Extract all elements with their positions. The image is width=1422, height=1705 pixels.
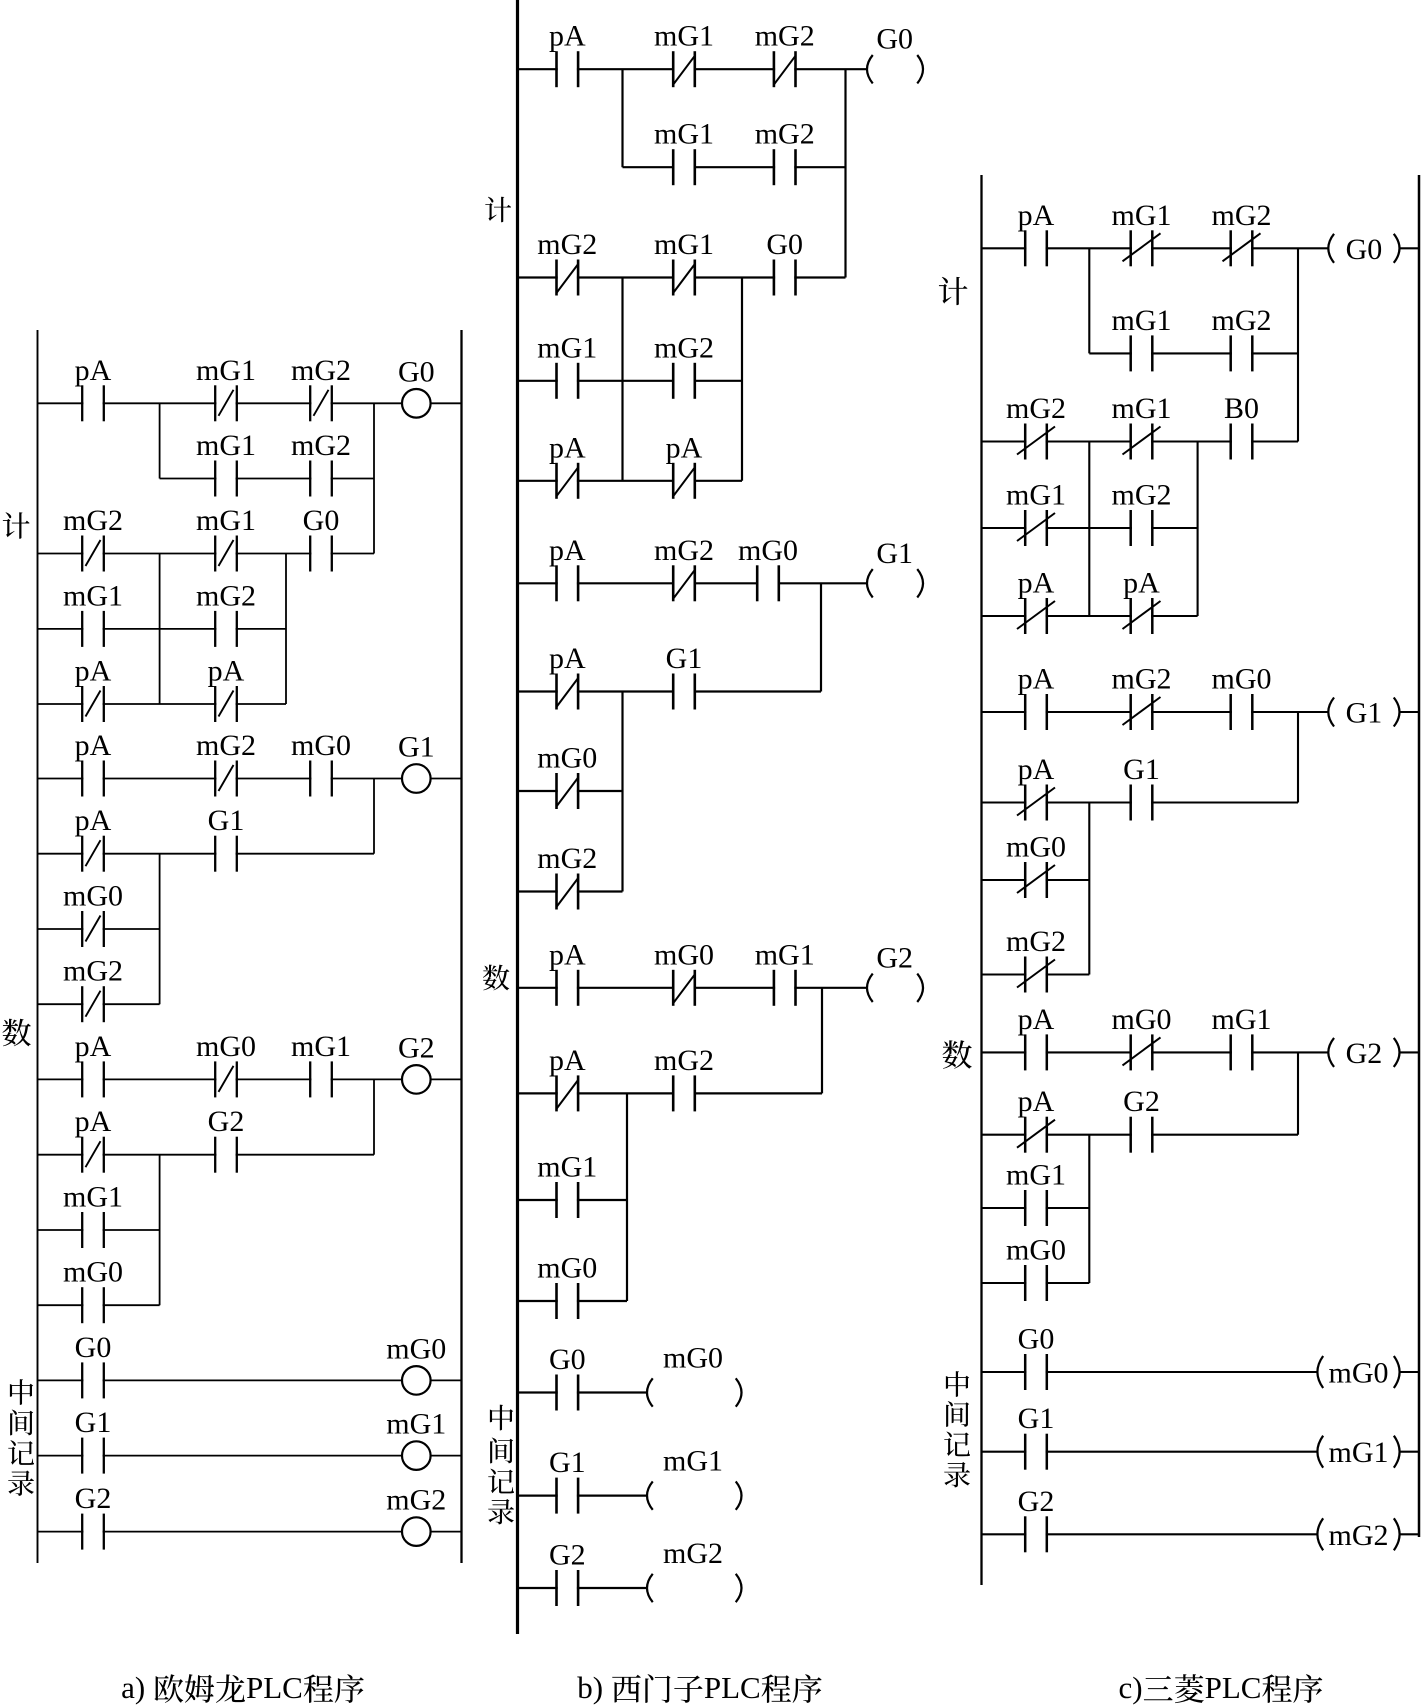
coil G1 (b) xyxy=(867,537,923,598)
left power rail (a) xyxy=(37,330,39,1563)
wire branch row pA-G1 (b) xyxy=(518,690,822,692)
contact mG1 branch (a) xyxy=(196,429,256,497)
contact mG2 NC row (b) xyxy=(537,842,597,910)
wire vertical junction rung1-rung2 (c) xyxy=(1297,248,1299,441)
label zhongjianjilu (intermediate record) diagram c xyxy=(944,1371,970,1487)
label shu (number) diagram a xyxy=(2,1019,30,1047)
contact mG0 row (a) xyxy=(63,1256,123,1324)
wire branch row mG0 (c) xyxy=(982,879,1090,881)
wire parallel branch mG1-mG2 (c) xyxy=(1089,352,1298,354)
svg-text:mG1: mG1 xyxy=(1006,479,1066,512)
wire branch row mG0 (b) xyxy=(518,1300,628,1302)
contact pA NC row4 col1 (a) xyxy=(75,655,112,723)
coil G2 (c) xyxy=(1328,1037,1399,1070)
svg-text:G1: G1 xyxy=(75,1406,112,1439)
contact mG2 NC rung3 (b) xyxy=(654,534,714,602)
contact mG0 NC row (a) xyxy=(63,880,123,948)
svg-text:pA: pA xyxy=(75,729,112,762)
contact mG2 NC rung2 (a) xyxy=(63,504,123,572)
svg-text:pA: pA xyxy=(75,1105,112,1138)
svg-text:pA: pA xyxy=(75,655,112,688)
wire coil G1 to rail (c) xyxy=(1400,711,1420,713)
contact G2 rung7 (b) xyxy=(549,1539,586,1607)
coil mG1 (a) xyxy=(386,1408,446,1470)
contact mG0 NC rung4 (a) xyxy=(196,1030,256,1098)
contact mG1 rung4 (b) xyxy=(755,938,815,1006)
contact pA NC row pA-G1 (c) xyxy=(1017,753,1055,821)
contact mG1 branch (b) xyxy=(654,118,714,186)
svg-text:mG0: mG0 xyxy=(291,729,351,762)
svg-text:mG2: mG2 xyxy=(755,118,815,151)
svg-text:pA: pA xyxy=(1018,663,1055,696)
wire vertical junction rung1-branch (b) xyxy=(621,69,623,167)
svg-text:mG1: mG1 xyxy=(663,1445,723,1478)
wire vertical junction rung4 (a) xyxy=(373,1079,375,1154)
wire vertical rung4 block (c) xyxy=(1088,1135,1090,1283)
svg-text:B0: B0 xyxy=(1224,392,1259,425)
svg-text:mG2: mG2 xyxy=(1112,479,1172,512)
contact G2 row pA-G2 (a) xyxy=(208,1105,245,1173)
svg-text:mG1: mG1 xyxy=(654,20,714,53)
contact pA rung4 (a) xyxy=(75,1030,112,1098)
contact pA rung3 (c) xyxy=(1018,663,1055,731)
svg-text:G0: G0 xyxy=(766,228,803,261)
svg-text:pA: pA xyxy=(549,20,586,53)
svg-text:G0: G0 xyxy=(1018,1323,1055,1356)
right power rail (a) xyxy=(460,330,462,1563)
contact mG2 NC rung2 (b) xyxy=(537,228,597,296)
svg-text:mG0: mG0 xyxy=(386,1332,446,1365)
svg-text:pA: pA xyxy=(1018,1003,1055,1036)
svg-text:PLC: PLC xyxy=(246,1670,303,1705)
coil G0 (c) xyxy=(1328,233,1399,266)
svg-text:pA: pA xyxy=(549,1044,586,1077)
wire rung6 G1 (b) xyxy=(518,1494,648,1496)
contact pA NC row4 col2 (a) xyxy=(208,655,245,723)
wire branch row mG1-mG2 (a) xyxy=(38,628,287,630)
svg-text:mG0: mG0 xyxy=(1112,1003,1172,1036)
wire vertical right side rung2 block (b) xyxy=(741,278,743,481)
svg-text:pA: pA xyxy=(1018,567,1055,600)
wire rung3 (a) xyxy=(38,778,417,780)
wire coil mG0 to rail (c) xyxy=(1400,1371,1419,1373)
wire vertical rung3 block (c) xyxy=(1088,803,1090,975)
svg-text:mG2: mG2 xyxy=(63,504,123,537)
contact mG2 NC rung3 (c) xyxy=(1112,663,1172,731)
wire rung4 (a) xyxy=(38,1078,417,1080)
svg-text:pA: pA xyxy=(666,431,703,464)
contact mG0 NC row (b) xyxy=(537,742,597,810)
wire rung2 (b) xyxy=(518,276,846,278)
label shu (number) diagram c xyxy=(943,1040,972,1069)
svg-text:mG0: mG0 xyxy=(537,742,597,775)
wire branch row mG1-mG2 (b) xyxy=(518,380,743,382)
svg-text:pA: pA xyxy=(75,354,112,387)
svg-text:a): a) xyxy=(121,1670,145,1705)
svg-text:mG2: mG2 xyxy=(654,534,714,567)
svg-text:G2: G2 xyxy=(398,1031,435,1064)
wire rung6 G1 (c) xyxy=(982,1451,1318,1453)
caption c) Mitsubishi PLC program xyxy=(1119,1670,1323,1705)
contact mG1 NC rung1 (b) xyxy=(654,20,714,88)
svg-text:mG0: mG0 xyxy=(1006,1234,1066,1267)
svg-text:pA: pA xyxy=(549,938,586,971)
contact pA rung4 (b) xyxy=(549,938,586,1006)
svg-text:G0: G0 xyxy=(1346,233,1383,266)
contact mG2 row3 (c) xyxy=(1112,479,1172,547)
svg-text:mG0: mG0 xyxy=(1006,831,1066,864)
left power rail (c) xyxy=(980,175,982,1585)
svg-text:mG1: mG1 xyxy=(1112,392,1172,425)
wire rung5 G0 (a) xyxy=(38,1379,462,1381)
contact pA NC row4 col2 (b) xyxy=(666,431,703,499)
wire vertical right side rung2 block (a) xyxy=(285,554,287,705)
wire parallel branch mG1-mG2 (a) xyxy=(160,478,374,480)
wire coil mG1 to rail (c) xyxy=(1400,1451,1419,1453)
svg-text:PLC: PLC xyxy=(1205,1670,1262,1705)
wire rung7 G2 (b) xyxy=(518,1587,648,1589)
wire branch row mG1 (a) xyxy=(38,1229,160,1231)
wire coil G2 to rail (a) xyxy=(431,1078,462,1080)
contact mG2 NC row (c) xyxy=(1006,925,1066,993)
contact mG2 branch (b) xyxy=(755,118,815,186)
svg-text:PLC: PLC xyxy=(704,1670,761,1705)
svg-text:mG1: mG1 xyxy=(755,938,815,971)
svg-text:G2: G2 xyxy=(1018,1485,1055,1518)
svg-text:mG1: mG1 xyxy=(654,118,714,151)
contact G1 row pA-G1 (b) xyxy=(666,642,703,710)
contact G1 rung6 (b) xyxy=(549,1446,586,1514)
contact pA NC row pA-G1 (b) xyxy=(549,642,586,710)
wire branch row pA-G1 (c) xyxy=(982,801,1299,803)
contact mG0 NC rung4 (c) xyxy=(1112,1003,1172,1071)
wire vertical junction rung1-rung2 (b) xyxy=(844,69,846,277)
contact mG1 rung4 (c) xyxy=(1212,1003,1272,1071)
svg-text:mG0: mG0 xyxy=(63,1256,123,1289)
wire vertical junction rung3 (c) xyxy=(1297,712,1299,803)
contact mG0 row (b) xyxy=(537,1252,597,1320)
svg-text:mG1: mG1 xyxy=(537,331,597,364)
contact mG2 NC rung2 (c) xyxy=(1006,392,1066,460)
svg-text:mG2: mG2 xyxy=(291,354,351,387)
svg-text:mG2: mG2 xyxy=(1006,925,1066,958)
coil mG1 (c) xyxy=(1317,1436,1399,1470)
wire rung3 (b) xyxy=(518,582,868,584)
contact mG2 NC row (a) xyxy=(63,955,123,1023)
wire vertical junction rung1-branch (c) xyxy=(1088,248,1090,353)
contact pA NC row pA-G2 (c) xyxy=(1017,1085,1055,1153)
svg-text:b): b) xyxy=(577,1670,603,1705)
contact pA NC row4 col2 (c) xyxy=(1123,567,1161,635)
svg-text:G1: G1 xyxy=(549,1446,586,1479)
contact G1 row pA-G1 (a) xyxy=(208,804,245,872)
contact mG1 row3 (a) xyxy=(63,579,123,647)
svg-text:mG2: mG2 xyxy=(537,228,597,261)
contact G0 rung5 (a) xyxy=(75,1331,112,1399)
wire rung3 (c) xyxy=(982,711,1329,713)
wire vertical junction rung4 (b) xyxy=(821,988,823,1094)
svg-text:pA: pA xyxy=(549,431,586,464)
wire vertical col1-col2 rung2 block (c) xyxy=(1088,442,1090,617)
svg-text:mG2: mG2 xyxy=(196,579,256,612)
wire rung1 (a) xyxy=(38,402,417,404)
contact G2 rung7 (a) xyxy=(75,1482,112,1550)
coil G2 (b) xyxy=(867,941,923,1002)
wire coil G2 to rail (c) xyxy=(1400,1051,1420,1053)
label shu (number) diagram b xyxy=(483,965,509,991)
svg-text:mG1: mG1 xyxy=(1212,1003,1272,1036)
contact G2 row pA-G2 (c) xyxy=(1123,1085,1160,1153)
contact pA NC row4 col1 (c) xyxy=(1017,567,1055,635)
contact G0 rung2 (a) xyxy=(303,504,340,572)
svg-text:G1: G1 xyxy=(208,804,245,837)
contact G0 rung5 (b) xyxy=(549,1343,586,1411)
contact mG0 NC rung4 (b) xyxy=(654,938,714,1006)
caption a) Omron PLC program xyxy=(121,1670,364,1705)
svg-text:mG2: mG2 xyxy=(663,1537,723,1570)
coil mG2 (b) xyxy=(647,1537,742,1602)
contact mG2 NC rung1 (a) xyxy=(291,354,351,422)
wire vertical col1-col2 rung2 block (a) xyxy=(159,554,161,705)
contact mG1 NC rung1 (a) xyxy=(196,354,256,422)
wire branch row mG0 (a) xyxy=(38,928,160,930)
contact pA rung3 (a) xyxy=(75,729,112,797)
svg-text:pA: pA xyxy=(549,534,586,567)
wire rung7 G2 (a) xyxy=(38,1531,462,1533)
wire rung4 (c) xyxy=(982,1051,1329,1053)
svg-text:mG2: mG2 xyxy=(1212,199,1272,232)
svg-text:mG0: mG0 xyxy=(663,1342,723,1375)
svg-text:G1: G1 xyxy=(1018,1402,1055,1435)
wire branch row pA-G1 (a) xyxy=(38,853,375,855)
contact G0 rung2 (b) xyxy=(766,228,803,296)
caption b) Siemens PLC program xyxy=(577,1670,821,1705)
svg-text:G2: G2 xyxy=(876,941,913,974)
svg-text:mG0: mG0 xyxy=(537,1252,597,1285)
svg-text:mG0: mG0 xyxy=(1329,1357,1389,1390)
svg-text:G2: G2 xyxy=(75,1482,112,1515)
wire branch row mG0 (b) xyxy=(518,790,623,792)
wire branch row mG1 (b) xyxy=(518,1199,628,1201)
contact mG1 row3 (b) xyxy=(537,331,597,399)
wire vertical junction rung3 (b) xyxy=(820,583,822,691)
wire branch row pA-pA (a) xyxy=(38,703,287,705)
contact pA rung4 (c) xyxy=(1018,1003,1055,1071)
contact mG0 NC row (c) xyxy=(1006,831,1066,899)
coil mG0 (c) xyxy=(1317,1356,1399,1390)
wire rung5 G0 (b) xyxy=(518,1391,648,1393)
contact pA rung1 (b) xyxy=(549,20,586,88)
wire coil G0 to rail (c) xyxy=(1400,247,1420,249)
svg-text:mG2: mG2 xyxy=(63,955,123,988)
wire vertical rung4 block (b) xyxy=(626,1093,628,1301)
svg-text:mG2: mG2 xyxy=(1329,1519,1389,1552)
coil mG0 (a) xyxy=(386,1332,446,1394)
svg-text:pA: pA xyxy=(208,655,245,688)
wire rung1 (b) xyxy=(518,68,868,70)
svg-text:mG1: mG1 xyxy=(196,354,256,387)
wire coil G1 to rail (a) xyxy=(431,778,462,780)
svg-text:G0: G0 xyxy=(398,355,435,388)
wire vertical junction rung4 (c) xyxy=(1297,1052,1299,1134)
wire rung6 G1 (a) xyxy=(38,1455,462,1457)
contact pA rung1 (a) xyxy=(75,354,112,422)
wire vertical junction rung3 (a) xyxy=(373,779,375,854)
contact pA NC row4 col1 (b) xyxy=(549,431,586,499)
svg-text:mG2: mG2 xyxy=(291,429,351,462)
svg-text:mG2: mG2 xyxy=(654,1044,714,1077)
contact mG1 NC rung2 (c) xyxy=(1112,392,1172,460)
contact mG1 rung4 (a) xyxy=(291,1030,351,1098)
svg-text:G0: G0 xyxy=(876,23,913,56)
wire parallel branch mG1-mG2 (b) xyxy=(623,166,846,168)
wire vertical rung3 block (b) xyxy=(621,692,623,892)
left power rail (b) xyxy=(516,0,519,1634)
svg-text:mG1: mG1 xyxy=(196,504,256,537)
wire rung7 G2 (c) xyxy=(982,1533,1318,1535)
svg-text:mG2: mG2 xyxy=(1112,663,1172,696)
svg-text:mG1: mG1 xyxy=(63,1181,123,1214)
svg-text:mG1: mG1 xyxy=(1112,199,1172,232)
contact pA NC row pA-mG2 (b) xyxy=(549,1044,586,1112)
svg-text:mG2: mG2 xyxy=(755,20,815,53)
svg-text:mG0: mG0 xyxy=(738,534,798,567)
contact pA rung1 (c) xyxy=(1018,199,1055,266)
label zhongjianjilu (intermediate record) diagram a xyxy=(8,1379,34,1496)
wire branch row mG1-mG2 (c) xyxy=(982,527,1198,529)
svg-text:pA: pA xyxy=(1018,199,1055,232)
right power rail (c) xyxy=(1418,175,1421,1537)
wire branch row mG2 (c) xyxy=(982,973,1090,975)
wire rung4 (b) xyxy=(518,987,868,989)
coil mG1 (b) xyxy=(647,1445,742,1510)
coil G2 (a) xyxy=(398,1031,435,1093)
svg-text:mG2: mG2 xyxy=(1006,392,1066,425)
label ji (count) diagram c xyxy=(939,277,968,305)
svg-text:mG1: mG1 xyxy=(654,228,714,261)
svg-text:pA: pA xyxy=(75,804,112,837)
contact mG2 branch (a) xyxy=(291,429,351,497)
contact mG2 NC rung1 (b) xyxy=(755,20,815,88)
svg-text:mG1: mG1 xyxy=(63,579,123,612)
svg-text:mG1: mG1 xyxy=(291,1030,351,1063)
contact mG0 rung3 (c) xyxy=(1212,663,1272,731)
wire branch row pA-mG2 (b) xyxy=(518,1092,823,1094)
svg-text:mG1: mG1 xyxy=(537,1151,597,1184)
coil G1 (c) xyxy=(1328,697,1399,730)
svg-text:G0: G0 xyxy=(303,504,340,537)
svg-text:pA: pA xyxy=(1123,567,1160,600)
svg-text:mG2: mG2 xyxy=(537,842,597,875)
svg-text:mG0: mG0 xyxy=(196,1030,256,1063)
contact mG0 rung3 (a) xyxy=(291,729,351,797)
svg-text:mG2: mG2 xyxy=(654,331,714,364)
label zhongjianjilu (intermediate record) diagram b xyxy=(488,1405,514,1525)
wire vertical junction rung1-branch (a) xyxy=(159,403,161,478)
svg-text:G0: G0 xyxy=(75,1331,112,1364)
svg-text:pA: pA xyxy=(1018,1085,1055,1118)
svg-text:G2: G2 xyxy=(1346,1037,1383,1070)
wire vertical right side rung2 block (c) xyxy=(1197,442,1199,617)
contact pA rung3 (b) xyxy=(549,534,586,602)
contact mG1 row (c) xyxy=(1006,1159,1066,1227)
svg-text:G1: G1 xyxy=(398,731,435,764)
contact pA NC row pA-G2 (a) xyxy=(75,1105,112,1173)
coil mG0 (b) xyxy=(647,1342,742,1407)
svg-text:mG1: mG1 xyxy=(1329,1436,1389,1469)
contact mG1 row (a) xyxy=(63,1181,123,1249)
label ji (count) diagram a xyxy=(3,512,30,539)
svg-text:mG2: mG2 xyxy=(196,729,256,762)
wire rung1 (c) xyxy=(982,247,1329,249)
svg-text:G0: G0 xyxy=(549,1343,586,1376)
contact B0 rung2 (c) xyxy=(1224,392,1259,460)
contact mG1 NC row3 (c) xyxy=(1006,479,1066,547)
svg-text:pA: pA xyxy=(1018,753,1055,786)
svg-text:G1: G1 xyxy=(666,642,703,675)
wire branch row pA-G2 (c) xyxy=(982,1134,1299,1136)
svg-text:mG1: mG1 xyxy=(196,429,256,462)
wire branch row mG2 (b) xyxy=(518,890,623,892)
wire branch row pA-G2 (a) xyxy=(38,1154,375,1156)
contact mG2 NC rung3 (a) xyxy=(196,729,256,797)
wire rung5 G0 (c) xyxy=(982,1371,1318,1373)
coil mG2 (c) xyxy=(1317,1518,1399,1552)
wire branch row pA-pA (b) xyxy=(518,480,743,482)
wire coil G0 to rail (a) xyxy=(431,402,462,404)
svg-text:G2: G2 xyxy=(208,1105,245,1138)
wire vertical rung4 block (a) xyxy=(159,1155,161,1306)
svg-text:pA: pA xyxy=(549,642,586,675)
svg-text:G1: G1 xyxy=(1123,753,1160,786)
contact G0 rung5 (c) xyxy=(1018,1323,1055,1391)
svg-text:G2: G2 xyxy=(1123,1085,1160,1118)
label ji (count) diagram b xyxy=(485,197,511,223)
svg-text:G2: G2 xyxy=(549,1539,586,1572)
coil G1 (a) xyxy=(398,731,435,793)
svg-text:mG0: mG0 xyxy=(1212,663,1272,696)
svg-text:mG0: mG0 xyxy=(654,938,714,971)
wire branch row mG0 (c) xyxy=(982,1282,1090,1284)
svg-text:mG1: mG1 xyxy=(386,1408,446,1441)
svg-text:mG1: mG1 xyxy=(1112,304,1172,337)
contact mG1 NC rung2 (a) xyxy=(196,504,256,572)
contact mG2 row pA-mG2 (b) xyxy=(654,1044,714,1112)
wire vertical rung3 block (a) xyxy=(159,854,161,1005)
svg-text:mG1: mG1 xyxy=(1006,1159,1066,1192)
wire branch row mG2 (a) xyxy=(38,1003,160,1005)
contact G2 rung7 (c) xyxy=(1018,1485,1055,1553)
svg-text:c): c) xyxy=(1119,1670,1143,1705)
coil mG2 (a) xyxy=(386,1484,446,1546)
svg-text:mG2: mG2 xyxy=(1212,304,1272,337)
svg-text:mG0: mG0 xyxy=(63,880,123,913)
wire rung2 (a) xyxy=(38,553,375,555)
contact mG1 NC rung1 (c) xyxy=(1112,199,1172,266)
wire branch row mG1 (c) xyxy=(982,1207,1090,1209)
contact mG1 NC rung2 (b) xyxy=(654,228,714,296)
svg-text:mG2: mG2 xyxy=(386,1484,446,1517)
svg-text:G1: G1 xyxy=(1346,697,1383,730)
contact mG2 NC rung1 (c) xyxy=(1212,199,1272,266)
contact mG1 row (b) xyxy=(537,1151,597,1219)
contact G1 rung6 (a) xyxy=(75,1406,112,1474)
wire rung2 (c) xyxy=(982,440,1299,442)
wire vertical junction rung1-rung2 (a) xyxy=(373,403,375,553)
coil G0 (a) xyxy=(398,355,435,417)
contact mG0 row (c) xyxy=(1006,1234,1066,1302)
contact mG1 branch (c) xyxy=(1112,304,1172,372)
